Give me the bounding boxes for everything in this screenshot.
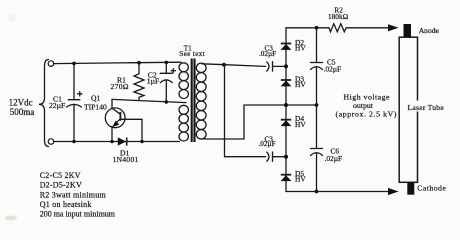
node secondary top — [222, 63, 226, 67]
svg-text:C2-C5 2KV: C2-C5 2KV — [40, 171, 81, 180]
diode D2 — [281, 43, 291, 45]
svg-text:.02µF: .02µF — [324, 64, 342, 73]
svg-text:22µF: 22µF — [49, 101, 65, 110]
node B — [284, 64, 288, 68]
svg-text:See text: See text — [179, 50, 205, 58]
laser tube — [399, 37, 417, 182]
node C6 bottom — [315, 190, 319, 194]
node mid rail — [284, 103, 288, 107]
capacitor C3 top — [267, 62, 269, 71]
svg-text:R2 3watt minimum: R2 3watt minimum — [40, 190, 107, 199]
secondary winding — [196, 63, 206, 139]
capacitor C4 lower (labelled C3) — [267, 152, 269, 161]
node C2 top — [165, 61, 169, 65]
wire secondary top — [202, 64, 266, 67]
node R1 top — [137, 61, 141, 65]
svg-text:500ma: 500ma — [10, 107, 35, 117]
anode terminal — [404, 24, 412, 37]
transformer T1 core — [192, 59, 195, 143]
svg-text:180kΩ: 180kΩ — [328, 12, 348, 21]
svg-text:Laser Tube: Laser Tube — [408, 103, 445, 112]
label laser tube — [406, 101, 444, 112]
node C1 top — [72, 62, 76, 66]
node C2 bottom — [165, 100, 169, 104]
svg-text:.02µF: .02µF — [325, 154, 343, 163]
diode chain vertical wire — [285, 28, 287, 192]
svg-text:(approx. 2.5 kV): (approx. 2.5 kV) — [336, 110, 398, 119]
wire R2 to anode arrow — [346, 27, 389, 29]
terminal top-left — [48, 61, 54, 67]
svg-text:D2-D5-2KV: D2-D5-2KV — [40, 181, 82, 190]
svg-text:HV: HV — [295, 80, 306, 89]
svg-text:.02µF: .02µF — [259, 50, 276, 58]
svg-text:Q1: Q1 — [91, 94, 100, 103]
brace 12V input — [39, 60, 49, 147]
capacitor C6 — [316, 105, 318, 149]
wire base feedback — [112, 99, 186, 102]
svg-text:Cathode: Cathode — [417, 184, 446, 193]
resistor R2 — [329, 24, 346, 32]
svg-text:270Ω: 270Ω — [111, 82, 129, 91]
primary lower winding — [179, 105, 188, 141]
node C5 bottom — [315, 103, 319, 107]
capacitor C5 — [316, 28, 318, 63]
svg-text:TIP140: TIP140 — [84, 103, 107, 112]
diode D3 — [281, 79, 291, 81]
resistor R1 — [134, 63, 144, 101]
svg-text:1µF: 1µF — [147, 77, 159, 86]
wire to lower doubler — [225, 65, 266, 157]
svg-text:1N4001: 1N4001 — [113, 155, 139, 164]
svg-text:HV: HV — [295, 175, 306, 184]
capacitor C1 — [73, 63, 75, 99]
wire bottom HV rail to cathode — [286, 191, 389, 193]
primary upper winding — [179, 63, 188, 99]
svg-text:Anode: Anode — [419, 26, 440, 35]
wire top rail left — [54, 62, 181, 63]
node collector rail — [140, 140, 143, 143]
wire bottom rail left — [54, 141, 180, 143]
capacitor C2 — [165, 62, 167, 73]
node C — [284, 155, 288, 159]
terminal bottom-left — [48, 139, 54, 145]
svg-text:.02µF: .02µF — [259, 140, 276, 148]
cathode terminal — [407, 182, 414, 194]
wire secondary bottom — [204, 105, 317, 139]
diode D1 — [118, 137, 126, 145]
svg-text:HV: HV — [295, 44, 306, 53]
svg-text:HV: HV — [295, 120, 306, 129]
svg-text:200 ma input minimum: 200 ma input minimum — [40, 210, 116, 219]
diode D4 — [281, 119, 291, 121]
transistor Q1 — [105, 108, 125, 128]
wire top HV rail — [286, 27, 329, 29]
node C5 top — [315, 26, 319, 30]
node C1 bottom — [72, 140, 75, 143]
svg-text:Q1 on heatsink: Q1 on heatsink — [40, 200, 92, 209]
diode D5 — [281, 174, 291, 176]
node emitter — [110, 140, 113, 143]
